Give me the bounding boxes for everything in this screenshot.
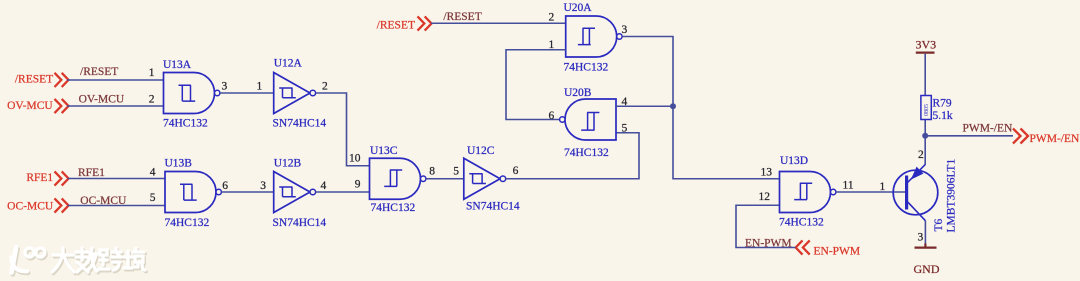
port RFE1 (left input port) xyxy=(26,171,68,185)
wire T6 emitter up to junction xyxy=(924,120,926,165)
svg-text:U13B: U13B xyxy=(165,158,193,170)
port EN-PWM (input port, left-pointing) xyxy=(796,240,860,257)
svg-text:1: 1 xyxy=(549,39,555,51)
svg-text:PWM-/EN: PWM-/EN xyxy=(1030,133,1080,145)
svg-text:U13D: U13D xyxy=(780,155,808,167)
nand gate U13D (74HC132) xyxy=(779,155,836,229)
svg-text:74HC132: 74HC132 xyxy=(564,62,609,74)
svg-text:SN74HC14: SN74HC14 xyxy=(466,201,520,213)
svg-text:0805: 0805 xyxy=(924,104,930,116)
svg-text:RFE1: RFE1 xyxy=(26,172,53,184)
svg-text:U12A: U12A xyxy=(274,58,303,70)
svg-text:1: 1 xyxy=(257,81,263,93)
svg-text:SN74HC14: SN74HC14 xyxy=(273,118,327,130)
svg-text:U12B: U12B xyxy=(274,158,302,170)
wire U13B pin6 to U12B pin3 xyxy=(221,180,273,192)
nand gate U13B (74HC132) xyxy=(165,158,222,230)
power symbol 3V3 xyxy=(915,37,936,52)
wire U13D pin11 to T6 base pin1 xyxy=(836,179,907,193)
svg-text:/RESET: /RESET xyxy=(80,66,118,78)
port OV-MCU (left input port) xyxy=(7,99,68,113)
wire junction to PWM-/EN port xyxy=(925,122,1013,136)
svg-text:RFE1: RFE1 xyxy=(78,167,105,179)
ground symbol GND xyxy=(914,244,940,276)
wire 3V3 to R79 xyxy=(924,54,926,96)
transistor T6 LMBT3906LT1 (PNP) xyxy=(893,149,957,244)
svg-text:OC-MCU: OC-MCU xyxy=(80,195,127,207)
svg-text:6: 6 xyxy=(222,180,228,192)
svg-text:6: 6 xyxy=(549,110,555,122)
port /RESET (top input port) xyxy=(377,16,432,31)
nand gate U20A (74HC132) xyxy=(564,2,623,74)
nand gate U13A (74HC132) xyxy=(163,59,220,130)
svg-text:6: 6 xyxy=(513,165,519,177)
svg-text:5.1k: 5.1k xyxy=(933,110,953,122)
svg-text:SN74HC14: SN74HC14 xyxy=(273,217,327,229)
port PWM-/EN (right output port) xyxy=(1013,129,1080,145)
svg-text:74HC132: 74HC132 xyxy=(163,118,208,130)
svg-text:13: 13 xyxy=(761,166,773,178)
wire U12B pin4 to U13C pin9 xyxy=(316,179,370,192)
wire OV-MCU to U13A pin2 xyxy=(67,93,164,106)
svg-text:4: 4 xyxy=(622,96,628,108)
port /RESET (left input port) xyxy=(15,73,69,87)
svg-text:LMBT3906LT1: LMBT3906LT1 xyxy=(946,159,958,233)
svg-text:74HC132: 74HC132 xyxy=(779,217,824,229)
svg-text:74HC132: 74HC132 xyxy=(371,202,416,214)
svg-text:2: 2 xyxy=(918,149,924,161)
wire /RESET to U13A pin1 xyxy=(67,66,164,80)
svg-text:10: 10 xyxy=(349,152,361,164)
svg-text:4: 4 xyxy=(321,180,327,192)
svg-text:5: 5 xyxy=(622,122,628,134)
junction node at R79 / PWM-/EN / T6 emitter xyxy=(922,133,928,139)
wire U12A pin2 to U13C pin10 xyxy=(316,81,370,166)
inverter U12A (SN74HC14) xyxy=(273,58,327,130)
resistor R79 5.1k xyxy=(921,96,953,123)
wire U13C pin8 to U12C pin5 xyxy=(426,166,464,179)
svg-text:U12C: U12C xyxy=(467,145,495,157)
svg-text:/RESET: /RESET xyxy=(377,19,415,31)
svg-text:/RESET: /RESET xyxy=(443,11,481,23)
wire RFE1 to U13B pin4 xyxy=(68,166,166,179)
svg-text:EN-PWM: EN-PWM xyxy=(814,246,861,258)
svg-text:U20B: U20B xyxy=(564,87,592,99)
svg-text:U13C: U13C xyxy=(370,145,398,157)
svg-text:2: 2 xyxy=(322,81,328,93)
svg-text:OC-MCU: OC-MCU xyxy=(7,201,54,213)
svg-text:5: 5 xyxy=(453,166,459,178)
nand gate U20B (74HC132, mirrored) xyxy=(560,87,616,159)
inverter U12C (SN74HC14) xyxy=(464,145,520,213)
svg-text:3V3: 3V3 xyxy=(915,37,936,51)
svg-text:U20A: U20A xyxy=(564,2,593,14)
svg-text:5: 5 xyxy=(150,192,156,204)
wire U20B pin4 to junction xyxy=(616,96,673,135)
svg-text:2: 2 xyxy=(549,11,555,23)
wire EN-PWM to U13D pin12 xyxy=(736,166,796,249)
junction node at U20 output bus xyxy=(670,103,676,109)
svg-text:/RESET: /RESET xyxy=(15,73,53,85)
inverter U12B (SN74HC14) xyxy=(273,158,327,230)
svg-text:11: 11 xyxy=(843,179,854,191)
svg-text:74HC132: 74HC132 xyxy=(564,147,609,159)
svg-text:1: 1 xyxy=(149,67,155,79)
svg-text:T6: T6 xyxy=(933,218,945,231)
svg-text:3: 3 xyxy=(622,24,628,36)
svg-text:OV-MCU: OV-MCU xyxy=(7,100,53,112)
svg-text:3: 3 xyxy=(260,180,266,192)
svg-text:OV-MCU: OV-MCU xyxy=(79,93,125,105)
svg-text:GND: GND xyxy=(914,262,940,276)
svg-text:9: 9 xyxy=(355,179,361,191)
svg-text:3: 3 xyxy=(918,231,924,243)
svg-text:EN-PWM: EN-PWM xyxy=(745,237,792,249)
svg-text:12: 12 xyxy=(759,191,771,203)
svg-text:U13A: U13A xyxy=(163,59,192,71)
wire T6 collector down to GND xyxy=(924,221,926,244)
svg-text:3: 3 xyxy=(222,81,228,93)
svg-text:4: 4 xyxy=(150,166,156,178)
wire U13A pin3 to U12A pin1 xyxy=(220,81,274,94)
svg-text:8: 8 xyxy=(429,166,435,178)
wire U12C pin6 to U20B pin5 xyxy=(506,133,639,179)
nand gate U13C (74HC132) xyxy=(370,145,426,214)
svg-text:2: 2 xyxy=(149,93,155,105)
wire U20A pin3 to U13D pin13 xyxy=(622,24,780,179)
svg-text:PWM-/EN: PWM-/EN xyxy=(963,122,1014,134)
wire U20B pin6 to U20A pin1 xyxy=(506,39,566,122)
port OC-MCU (left input port) xyxy=(7,198,68,212)
svg-text:74HC132: 74HC132 xyxy=(165,217,210,229)
wire /RESET to U20A pin2 xyxy=(431,11,566,24)
wire OC-MCU to U13B pin5 xyxy=(68,192,166,207)
svg-text:R79: R79 xyxy=(933,98,952,110)
svg-text:1: 1 xyxy=(880,181,886,193)
